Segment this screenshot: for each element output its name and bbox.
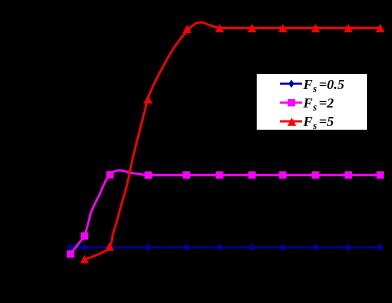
blue diamond markers — [67, 243, 383, 251]
legend entry 1: blue line — [280, 83, 302, 85]
red curve Fs=5 — [85, 22, 381, 259]
legend entry 3: red triangle — [287, 118, 296, 126]
blue curve Fs=0.5 — [71, 246, 381, 248]
legend box — [257, 74, 367, 130]
legend entry 1: blue diamond — [289, 80, 295, 88]
magenta square markers — [67, 171, 384, 258]
magenta curve Fs=2 — [71, 170, 381, 254]
svg-text:Fs =2: Fs =2 — [302, 97, 334, 114]
red triangle markers — [80, 24, 385, 263]
svg-text:Fs =0.5: Fs =0.5 — [302, 78, 344, 95]
svg-text:Fs =5: Fs =5 — [302, 115, 334, 132]
legend entry 3: red line — [280, 120, 302, 122]
legend entry 2: magenta line — [280, 101, 302, 103]
legend entry 2: magenta square — [288, 99, 295, 106]
